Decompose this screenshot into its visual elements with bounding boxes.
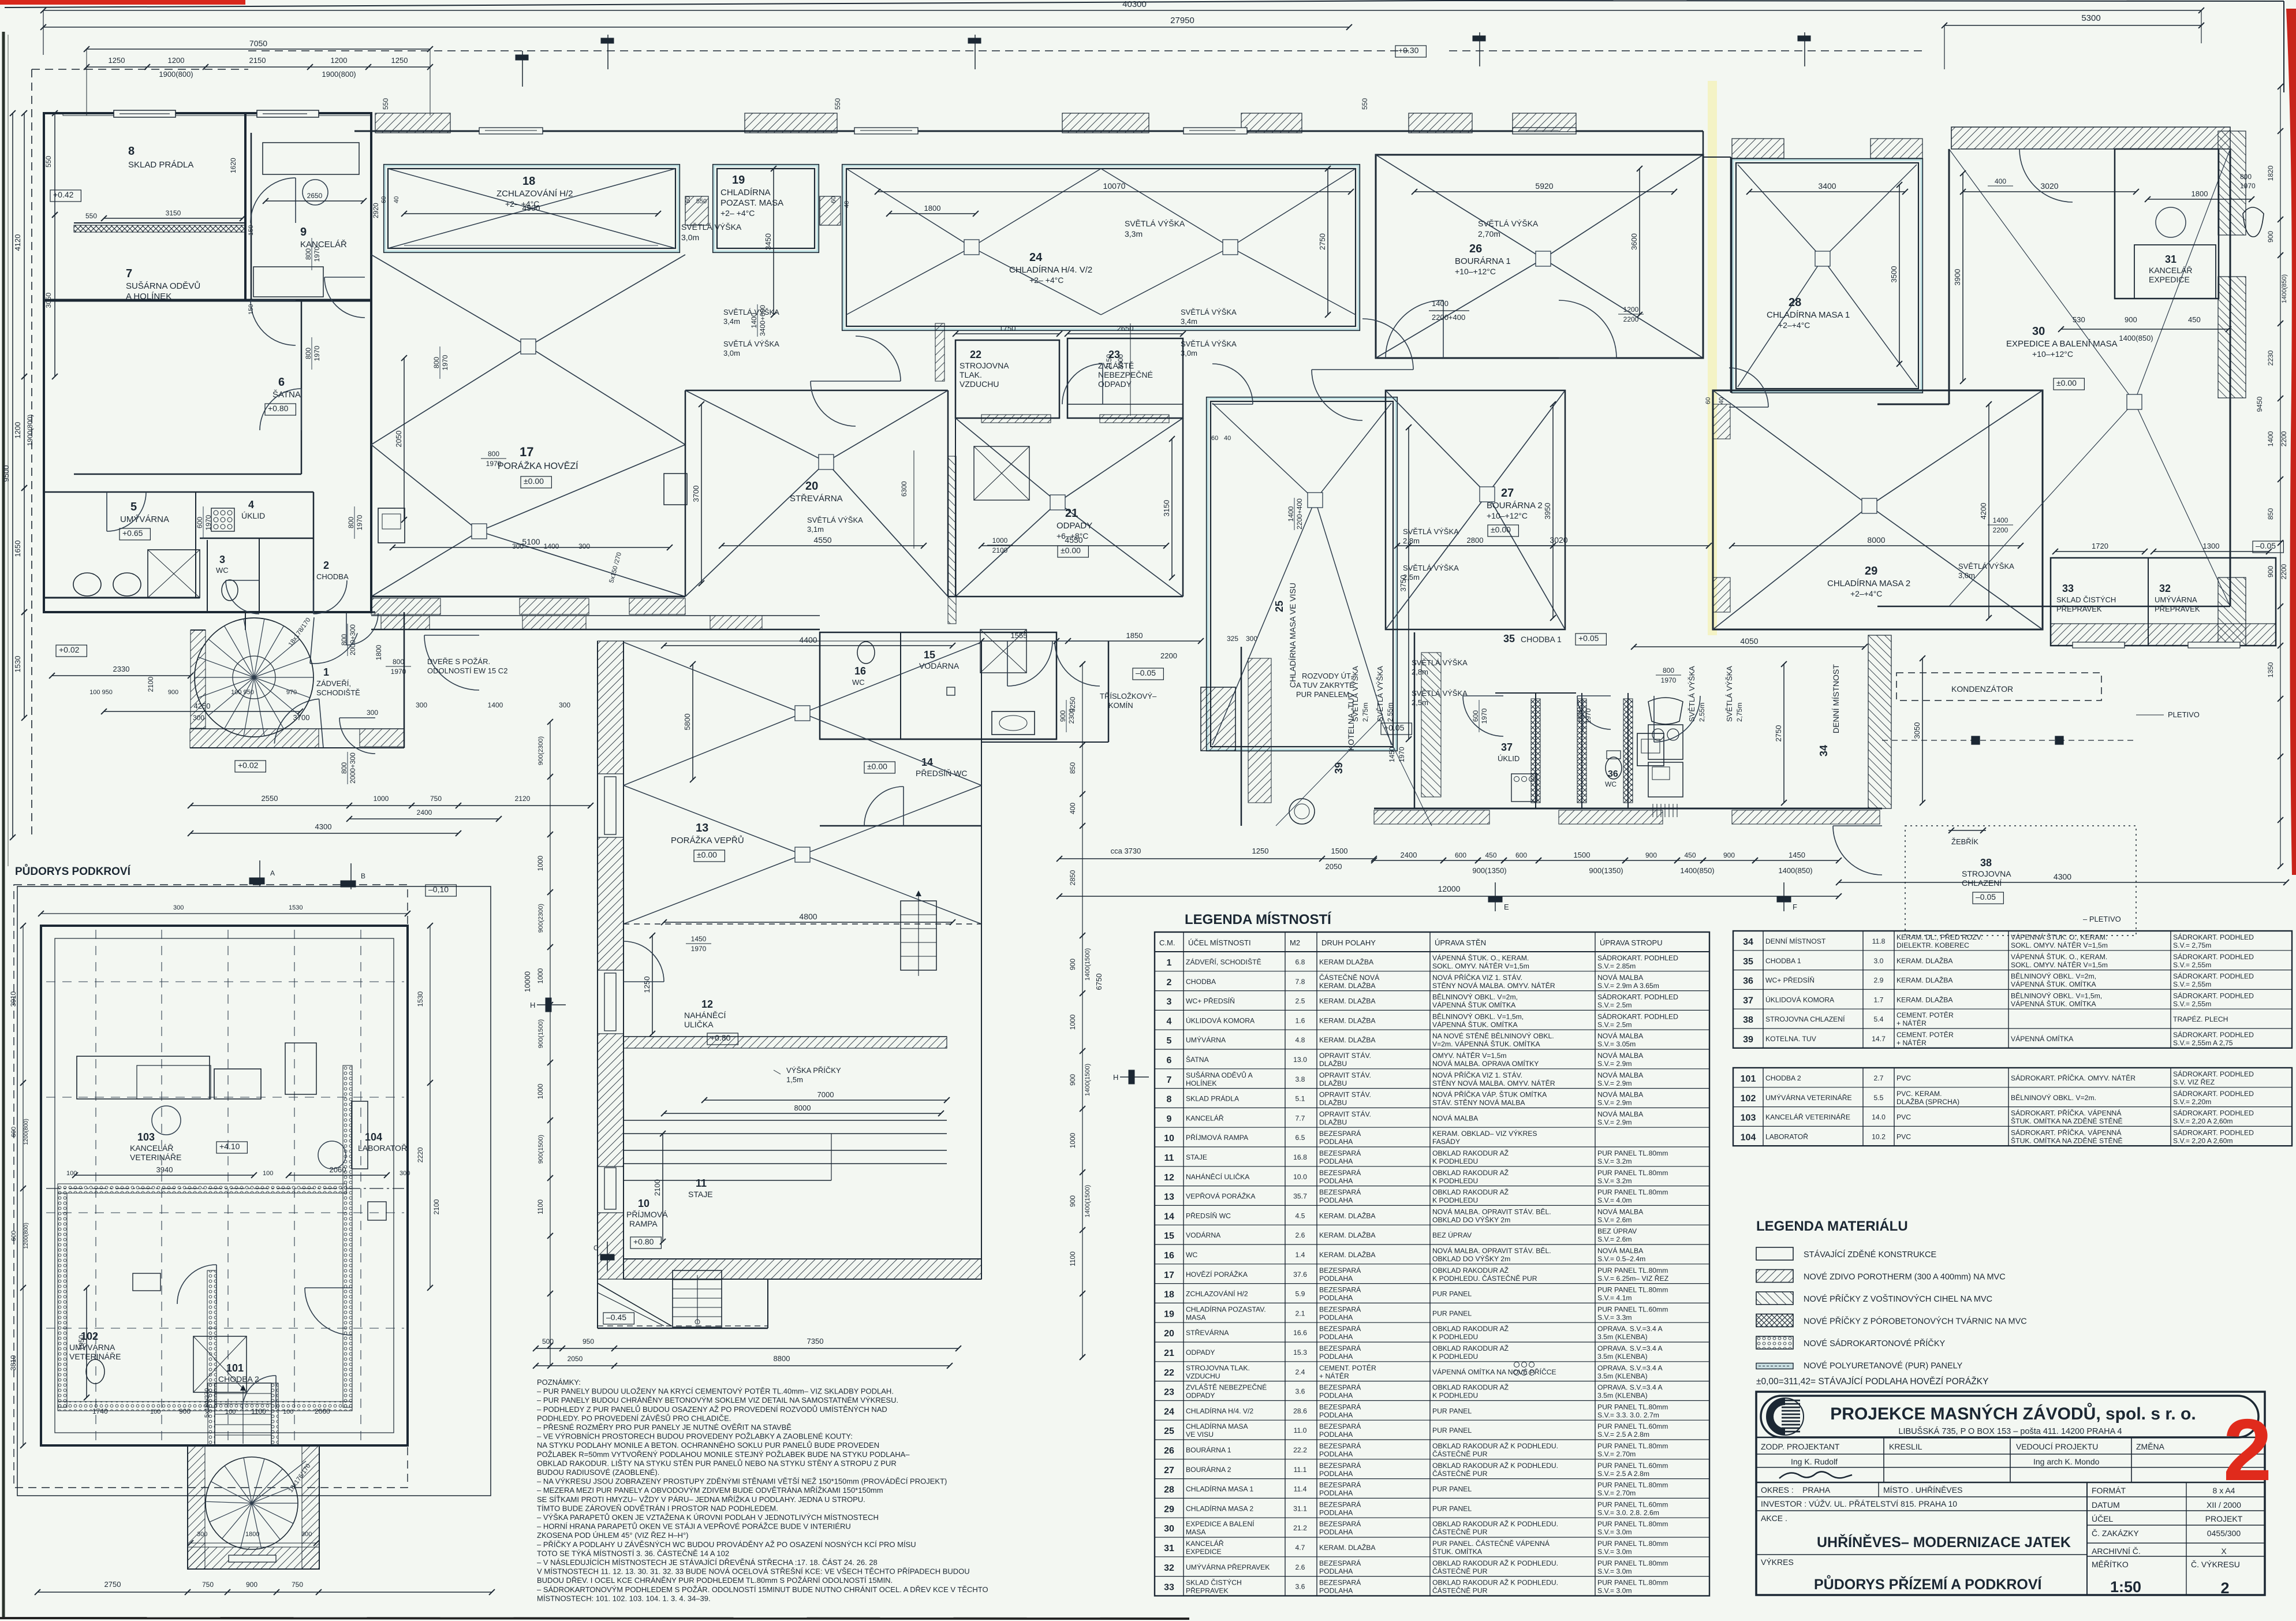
svg-text:OPRAVIT STÁV.: OPRAVIT STÁV.	[1319, 1109, 1371, 1118]
dim 1750	[955, 333, 1059, 334]
svg-text:22.2: 22.2	[1293, 1446, 1307, 1454]
svg-text:PODHLEDY. PO PROVEDENÍ ZÁVĚSŮ: PODHLEDY. PO PROVEDENÍ ZÁVĚSŮ PRO CHLADI…	[537, 1414, 731, 1422]
svg-text:STĚNY NOVÁ MALBA. OMYV. NÁTĚR: STĚNY NOVÁ MALBA. OMYV. NÁTĚR	[1432, 981, 1555, 990]
svg-text:+0.05: +0.05	[1384, 723, 1405, 732]
room 28 PUR enclosure	[1732, 159, 1922, 393]
svg-text:SÁDROKART. PŘÍČKA. VÁPENNÁ: SÁDROKART. PŘÍČKA. VÁPENNÁ	[2011, 1109, 2122, 1117]
svg-text:F: F	[1793, 903, 1797, 911]
svg-text:CHLADÍRNA H/4. V/2: CHLADÍRNA H/4. V/2	[1009, 265, 1092, 275]
svg-text:KANCELÁŘ VETERINÁŘE: KANCELÁŘ VETERINÁŘE	[1765, 1113, 1850, 1121]
svg-text:13: 13	[1164, 1193, 1174, 1202]
svg-text:3600: 3600	[1630, 233, 1638, 250]
wing dim chain	[550, 722, 551, 1366]
room 2 walls	[313, 492, 315, 612]
svg-text:26: 26	[1469, 243, 1482, 255]
svg-text:PODLAHA: PODLAHA	[1319, 1392, 1353, 1400]
svg-text:PŘEPRAVEK: PŘEPRAVEK	[2056, 605, 2102, 613]
svg-text:Č. VÝKRESU: Č. VÝKRESU	[2191, 1560, 2240, 1569]
piers 28 top	[1732, 139, 1784, 158]
svg-text:CHODBA 1: CHODBA 1	[1765, 957, 1801, 965]
svg-text:KRESLIL: KRESLIL	[1889, 1442, 1922, 1451]
svg-text:S.V.= 3.0m: S.V.= 3.0m	[1597, 1528, 1632, 1536]
svg-text:37: 37	[1743, 996, 1753, 1005]
svg-text:EXPEDICE: EXPEDICE	[2149, 275, 2190, 284]
svg-text:cca 3730: cca 3730	[1111, 847, 1141, 855]
room 9 desk	[263, 143, 359, 174]
svg-text:+2– +4°C: +2– +4°C	[720, 208, 755, 218]
svg-text:– V NÁSLEDUJÍCÍCH MÍSTNOSTECH: – V NÁSLEDUJÍCÍCH MÍSTNOSTECH JE STÁVAJÍ…	[537, 1558, 878, 1567]
svg-text:MĚŘÍTKO: MĚŘÍTKO	[2092, 1560, 2129, 1569]
room 11 stalls	[624, 1120, 947, 1121]
svg-text:1400: 1400	[1993, 516, 2008, 524]
hall left wall	[371, 131, 372, 597]
svg-text:CHLADÍRNA MASA 2: CHLADÍRNA MASA 2	[1186, 1504, 1253, 1512]
svg-text:BUDOU RADIUSOVÉ (ZAOBLENÉ).: BUDOU RADIUSOVÉ (ZAOBLENÉ).	[537, 1468, 659, 1477]
svg-text:3.5m (KLENBA): 3.5m (KLENBA)	[1597, 1333, 1648, 1341]
room 24 PUR enclosure	[842, 165, 1360, 330]
svg-text:MASA: MASA	[1186, 1528, 1206, 1536]
room 13 vault a	[624, 642, 802, 713]
svg-text:900: 900	[246, 1581, 257, 1589]
svg-text:2,75m: 2,75m	[1361, 703, 1369, 722]
svg-text:M2: M2	[1290, 938, 1300, 947]
svg-text:2300: 2300	[1067, 708, 1076, 724]
block 35 walls	[1414, 632, 1416, 808]
svg-text:CHODBA: CHODBA	[1186, 978, 1216, 986]
svg-text:NOVÁ MALBA: NOVÁ MALBA	[1597, 1031, 1644, 1040]
svg-text:S.V.= 2,75m: S.V.= 2,75m	[2173, 941, 2211, 949]
room 10 stairs	[673, 1270, 722, 1327]
svg-text:BOURÁRNA 1: BOURÁRNA 1	[1455, 256, 1511, 266]
svg-text:STROJOVNA: STROJOVNA	[1962, 869, 2011, 878]
svg-text:BOURÁRNA 2: BOURÁRNA 2	[1487, 501, 1543, 510]
svg-text:+0.80: +0.80	[633, 1237, 654, 1246]
svg-text:S.V.= 2,20 A 2,60m: S.V.= 2,20 A 2,60m	[2173, 1136, 2233, 1145]
svg-text:300: 300	[578, 542, 590, 550]
svg-text:BOURÁRNA 2: BOURÁRNA 2	[1186, 1465, 1231, 1474]
svg-text:HOLÍNEK: HOLÍNEK	[1186, 1079, 1217, 1087]
svg-text:3.6: 3.6	[1296, 1583, 1305, 1591]
chain cca3730	[1059, 858, 1374, 859]
svg-text:16.6: 16.6	[1293, 1329, 1307, 1337]
svg-text:OBKLAD RAKODUR AŽ K PODHLEDU.: OBKLAD RAKODUR AŽ K PODHLEDU.	[1432, 1578, 1558, 1587]
svg-text:40: 40	[393, 196, 400, 203]
svg-text:SVĚTLÁ VÝŠKA: SVĚTLÁ VÝŠKA	[1725, 666, 1734, 722]
svg-text:4300: 4300	[2054, 872, 2071, 881]
svg-text:BEZESPARÁ: BEZESPARÁ	[1319, 1266, 1361, 1275]
svg-text:1250: 1250	[109, 56, 125, 65]
wing 13 right walls	[1108, 641, 1110, 742]
svg-text:5.1: 5.1	[1296, 1095, 1305, 1103]
door entry top	[310, 633, 357, 664]
svg-text:11.1: 11.1	[1294, 1466, 1307, 1474]
svg-text:2.5: 2.5	[1296, 997, 1305, 1005]
svg-text:VZDUCHU: VZDUCHU	[960, 379, 999, 389]
svg-text:+2–+4°C: +2–+4°C	[1850, 589, 1882, 598]
svg-text:11.0: 11.0	[1294, 1426, 1307, 1434]
svg-text:2200+400: 2200+400	[1432, 313, 1465, 322]
svg-text:3050: 3050	[1913, 722, 1921, 739]
svg-text:35.7: 35.7	[1293, 1193, 1307, 1201]
svg-text:5: 5	[1167, 1036, 1172, 1046]
svg-text:30: 30	[2032, 325, 2045, 338]
svg-text:1450: 1450	[1789, 851, 1805, 859]
level -010 attic	[425, 885, 456, 896]
svg-text:XII / 2000: XII / 2000	[2207, 1500, 2241, 1510]
svg-text:2200: 2200	[2280, 431, 2288, 446]
svg-text:S.V.= 2,20m: S.V.= 2,20m	[2173, 1098, 2211, 1106]
section B flag	[350, 863, 352, 889]
svg-text:ŠTUK. OMÍTKA: ŠTUK. OMÍTKA	[1432, 1547, 1483, 1556]
room 29 vault	[1713, 390, 1869, 506]
svg-text:PODLAHA: PODLAHA	[1319, 1275, 1353, 1283]
svg-text:OBKLAD RAKODUR AŽ K PODHLEDU.: OBKLAD RAKODUR AŽ K PODHLEDU.	[1432, 1441, 1558, 1450]
room 31 desk	[2134, 245, 2216, 299]
svg-text:17: 17	[1164, 1270, 1174, 1280]
svg-text:ÚKLID: ÚKLID	[241, 511, 265, 520]
svg-text:POZAST. MASA: POZAST. MASA	[720, 198, 783, 208]
svg-text:VEDOUCÍ PROJEKTU: VEDOUCÍ PROJEKTU	[2016, 1442, 2098, 1451]
svg-text:PODLAHA: PODLAHA	[1319, 1489, 1353, 1497]
svg-text:800: 800	[488, 450, 499, 458]
room 30 door	[2019, 149, 2073, 202]
hall 17 south wall	[371, 596, 685, 598]
svg-text:OBKLAD RAKODUR AŽ: OBKLAD RAKODUR AŽ	[1432, 1188, 1509, 1197]
svg-text:CHLADÍRNA MASA 1: CHLADÍRNA MASA 1	[1186, 1485, 1253, 1493]
dim 4550 21	[981, 545, 1166, 546]
room 23 door	[1062, 364, 1103, 404]
svg-text:3910: 3910	[9, 991, 17, 1007]
room 18 PUR enclosure	[384, 165, 680, 252]
dim 4050 34	[1634, 646, 1865, 647]
svg-text:35: 35	[1503, 633, 1515, 644]
dim 4800 13	[664, 922, 953, 923]
svg-text:OBKLAD RAKODUR AŽ K PODHLEDU.: OBKLAD RAKODUR AŽ K PODHLEDU.	[1432, 1559, 1558, 1567]
svg-text:1970: 1970	[441, 355, 449, 370]
svg-text:S.V.= 2,55m: S.V.= 2,55m	[2173, 961, 2211, 969]
svg-text:400: 400	[1995, 177, 2006, 185]
svg-text:STROJOVNA CHLAZENÍ: STROJOVNA CHLAZENÍ	[1765, 1015, 1845, 1023]
svg-text:ŠTUK. OMÍTKA NA ZDĚNÉ STĚNĚ: ŠTUK. OMÍTKA NA ZDĚNÉ STĚNĚ	[2011, 1117, 2123, 1126]
svg-text:2200: 2200	[2280, 564, 2288, 579]
svg-text:6300: 6300	[900, 481, 908, 497]
svg-text:2,70m: 2,70m	[1478, 229, 1500, 239]
svg-text:BEZESPARÁ: BEZESPARÁ	[1319, 1461, 1361, 1470]
svg-text:OBKLAD DO VÝŠKY 2m: OBKLAD DO VÝŠKY 2m	[1432, 1215, 1510, 1224]
svg-text:PUR PANEL. ČÁSTEČNĚ VÁPENNÁ: PUR PANEL. ČÁSTEČNĚ VÁPENNÁ	[1432, 1539, 1550, 1548]
svg-text:NAHÁNĚCÍ ULIČKA: NAHÁNĚCÍ ULIČKA	[1186, 1172, 1250, 1181]
door room 8	[251, 178, 296, 223]
svg-text:450: 450	[1485, 851, 1496, 859]
svg-text:1400(850): 1400(850)	[1680, 866, 1714, 875]
svg-text:+ NÁTĚR: + NÁTĚR	[1896, 1038, 1927, 1047]
svg-text:PODLAHA: PODLAHA	[1319, 1411, 1353, 1419]
svg-text:PODLAHA: PODLAHA	[1319, 1430, 1353, 1439]
svg-text:OPRAVIT STÁV.: OPRAVIT STÁV.	[1319, 1071, 1371, 1079]
svg-text:4400: 4400	[799, 635, 817, 644]
svg-text:7000: 7000	[817, 1090, 834, 1099]
svg-text:HOVĚZÍ PORÁŽKA: HOVĚZÍ PORÁŽKA	[1186, 1270, 1248, 1279]
svg-text:PODLAHA: PODLAHA	[1319, 1528, 1353, 1536]
svg-text:11.4: 11.4	[1294, 1485, 1307, 1493]
section flag b	[601, 35, 614, 69]
svg-text:1900(800): 1900(800)	[26, 415, 34, 446]
svg-text:2100: 2100	[147, 676, 155, 692]
svg-text:18x178/170: 18x178/170	[288, 617, 312, 648]
svg-text:S.V.= 2.70m: S.V.= 2.70m	[1597, 1489, 1636, 1497]
svg-text:+0.42: +0.42	[53, 190, 74, 199]
svg-text:2650: 2650	[307, 192, 323, 200]
svg-text:PUR PANEL: PUR PANEL	[1432, 1309, 1472, 1317]
room 1 walls	[404, 612, 405, 748]
svg-text:3.8: 3.8	[1296, 1075, 1305, 1083]
svg-text:PVC: PVC	[1896, 1074, 1911, 1082]
svg-text:14.7: 14.7	[1872, 1035, 1886, 1043]
svg-text:S.V.= 3.0. 2.8. 2.6m: S.V.= 3.0. 2.8. 2.6m	[1597, 1508, 1659, 1516]
svg-text:PROJEKCE MASNÝCH ZÁVODŮ, sp: PROJEKCE MASNÝCH ZÁVODŮ, spol. s r. o.	[1830, 1403, 2196, 1424]
rooms22 hatch walls	[981, 415, 1051, 423]
svg-text:1200(800): 1200(800)	[23, 1119, 29, 1145]
svg-text:S.V.= 2.5 A 2.8m: S.V.= 2.5 A 2.8m	[1597, 1470, 1649, 1478]
svg-text:NA STYKU PODLAHY MONILE A BETO: NA STYKU PODLAHY MONILE A BETON. OCHRANN…	[537, 1441, 879, 1449]
svg-text:SÁDROKART. PODHLED: SÁDROKART. PODHLED	[2173, 1030, 2254, 1039]
svg-text:PUR PANEL TL.80mm: PUR PANEL TL.80mm	[1597, 1149, 1668, 1157]
left dim chain 9500	[12, 113, 13, 837]
svg-text:CHODBA 2: CHODBA 2	[1765, 1074, 1801, 1082]
svg-text:7: 7	[126, 267, 132, 280]
svg-text:PUR PANEL TL.60mm: PUR PANEL TL.60mm	[1597, 1422, 1668, 1430]
svg-text:BEZESPARÁ: BEZESPARÁ	[1319, 1519, 1361, 1528]
room 5 walls	[44, 491, 313, 493]
svg-text:800: 800	[432, 357, 440, 368]
room 30 walls	[1948, 149, 1950, 404]
svg-text:SVĚTLÁ VÝŠKA: SVĚTLÁ VÝŠKA	[1958, 562, 2014, 571]
svg-text:1.6: 1.6	[1296, 1016, 1305, 1024]
yellow scan band	[1708, 81, 1717, 635]
attic inner wall line	[55, 938, 394, 1433]
svg-text:LABORATOŘ: LABORATOŘ	[1765, 1132, 1808, 1141]
room 15 sq	[947, 687, 955, 695]
svg-text:PLETIVO: PLETIVO	[2168, 710, 2200, 719]
room 17 vault upper	[371, 255, 528, 346]
svg-text:+4.10: +4.10	[219, 1142, 240, 1151]
svg-text:K PODHLEDU: K PODHLEDU	[1432, 1197, 1478, 1205]
svg-text:TRAPÉZ. PLECH: TRAPÉZ. PLECH	[2173, 1015, 2228, 1023]
svg-text:37.6: 37.6	[1293, 1270, 1307, 1279]
room 28 vault	[1738, 165, 1823, 259]
dim 5100 17	[393, 547, 670, 548]
room 14 label	[864, 762, 895, 773]
svg-text:OBKLAD RAKODUR. LIŠTY NA STYKU: OBKLAD RAKODUR. LIŠTY NA STYKU STĚN PUR …	[537, 1459, 897, 1467]
svg-text:4: 4	[1167, 1016, 1172, 1026]
svg-text:600: 600	[1455, 851, 1466, 859]
svg-text:2,75m: 2,75m	[1735, 703, 1744, 722]
dim 3020 25	[1409, 545, 1709, 546]
svg-text:S.V.= 2.70m: S.V.= 2.70m	[1597, 1450, 1636, 1458]
svg-text:21: 21	[1065, 507, 1078, 520]
roof dashed outline	[32, 69, 248, 70]
svg-text:POZNÁMKY:: POZNÁMKY:	[537, 1378, 581, 1387]
svg-text:– PUR PANELY BUDOU ULOŽENY NA: – PUR PANELY BUDOU ULOŽENY NA KRYCÍ CEME…	[537, 1387, 894, 1396]
svg-text:1900(800): 1900(800)	[159, 70, 193, 79]
svg-text:19: 19	[732, 174, 745, 187]
svg-text:ZCHLAZOVÁNÍ H/2: ZCHLAZOVÁNÍ H/2	[1186, 1290, 1248, 1298]
svg-text:400: 400	[1069, 803, 1077, 814]
svg-text:PUR PANELEM: PUR PANELEM	[1296, 690, 1349, 699]
svg-text:SÁDROKART. PODHLED: SÁDROKART. PODHLED	[2173, 1128, 2254, 1136]
svg-text:ŠTUK. OMÍTKA NA ZDĚNÉ STĚNĚ: ŠTUK. OMÍTKA NA ZDĚNÉ STĚNĚ	[2011, 1136, 2123, 1145]
svg-text:PODLAHA: PODLAHA	[1319, 1157, 1353, 1165]
svg-text:10: 10	[638, 1198, 649, 1209]
room 25 PUR enclosure	[1207, 397, 1397, 751]
wall step 26-28	[1703, 131, 1704, 358]
svg-text:900(1350): 900(1350)	[1589, 866, 1623, 875]
svg-text:18: 18	[522, 175, 535, 188]
svg-text:SOKL. OMYV. NÁTĚR V=1,5m: SOKL. OMYV. NÁTĚR V=1,5m	[2011, 960, 2108, 969]
svg-text:900(1500): 900(1500)	[537, 1019, 544, 1048]
svg-text:CHODBA 1: CHODBA 1	[1521, 635, 1562, 644]
svg-text:BEZESPARÁ: BEZESPARÁ	[1319, 1305, 1361, 1313]
dim 4400 13	[664, 645, 953, 646]
room 17 sink	[378, 508, 405, 543]
room 39 walls	[1241, 647, 1242, 826]
svg-text:2750: 2750	[1318, 233, 1327, 250]
svg-text:8000: 8000	[1867, 535, 1885, 545]
svg-text:V=2m. VÁPENNÁ ŠTUK. OMÍTKA: V=2m. VÁPENNÁ ŠTUK. OMÍTKA	[1432, 1039, 1540, 1048]
room 13 walls	[624, 640, 1108, 642]
section F flag	[1783, 882, 1784, 911]
svg-text:800: 800	[393, 658, 404, 666]
room 21 shower sq	[974, 446, 1029, 500]
door room 1	[346, 613, 378, 645]
svg-text:CEMENT. POTĚR: CEMENT. POTĚR	[1896, 1030, 1954, 1039]
svg-text:6750: 6750	[1095, 974, 1103, 990]
svg-text:8: 8	[1167, 1095, 1172, 1105]
svg-text:40: 40	[1224, 435, 1231, 442]
svg-text:9450: 9450	[2256, 396, 2264, 412]
svg-text:2: 2	[2220, 1579, 2229, 1597]
svg-text:PROJEKT: PROJEKT	[2205, 1514, 2243, 1523]
svg-text:27950: 27950	[1170, 16, 1194, 25]
svg-text:PODLAHA: PODLAHA	[1319, 1508, 1353, 1516]
chain 4300r	[1839, 882, 2286, 883]
svg-text:2200: 2200	[1623, 315, 1639, 323]
svg-text:CHLADÍRNA H/4. V/2: CHLADÍRNA H/4. V/2	[1186, 1406, 1253, 1415]
svg-text:ODPADY: ODPADY	[1056, 521, 1092, 531]
svg-text:NOVÁ MALBA. OPRAVIT STÁV. BĚL.: NOVÁ MALBA. OPRAVIT STÁV. BĚL.	[1432, 1246, 1551, 1255]
svg-text:NOVÁ PŘÍČKA VÁP. ŠTUK OMÍTKA: NOVÁ PŘÍČKA VÁP. ŠTUK OMÍTKA	[1432, 1090, 1547, 1099]
svg-text:1650: 1650	[13, 541, 22, 557]
svg-text:VÁPENNÁ ŠTUK. O., KERAM.: VÁPENNÁ ŠTUK. O., KERAM.	[2011, 952, 2107, 961]
svg-text:LEGENDA MÍSTNOSTÍ: LEGENDA MÍSTNOSTÍ	[1185, 911, 1332, 927]
svg-text:3050: 3050	[44, 292, 53, 308]
svg-text:SÁDROKART. PODHLED: SÁDROKART. PODHLED	[2173, 952, 2254, 961]
room 9 desk2	[253, 267, 323, 297]
svg-text:900(2300): 900(2300)	[537, 904, 544, 933]
svg-text:S.V.= 0.5–2.4m: S.V.= 0.5–2.4m	[1597, 1255, 1645, 1263]
svg-text:PVC: PVC	[1896, 1132, 1911, 1141]
wall rooms 8/7 + hatch	[74, 222, 245, 223]
svg-text:5x150 /270: 5x150 /270	[608, 551, 623, 584]
svg-text:2330: 2330	[113, 665, 130, 673]
svg-text:3150: 3150	[1162, 500, 1171, 517]
attic dashed boundary	[14, 885, 408, 1488]
svg-text:DLAŽBU: DLAŽBU	[1319, 1098, 1347, 1107]
svg-text:300: 300	[416, 701, 427, 709]
room 27 sink	[1637, 733, 1664, 766]
dim 2800 27	[1397, 545, 1553, 546]
svg-text:1850: 1850	[1126, 631, 1143, 640]
svg-text:550: 550	[382, 98, 390, 110]
svg-text:3,3m: 3,3m	[1125, 229, 1143, 239]
svg-text:3000: 3000	[1117, 354, 1125, 370]
room 31 box	[2115, 149, 2219, 299]
svg-text:800: 800	[1663, 666, 1674, 675]
svg-text:PŮDORYS PŘÍZEMÍ A PODKROVÍ: PŮDORYS PŘÍZEMÍ A PODKROVÍ	[1814, 1574, 2043, 1593]
room 10 walls	[597, 1279, 598, 1328]
room 17 vault lower	[371, 445, 479, 531]
dim 2330 5	[52, 675, 191, 676]
svg-text:900: 900	[168, 689, 178, 696]
svg-text:SVĚTLÁ VÝŠKA: SVĚTLÁ VÝŠKA	[1376, 666, 1384, 722]
door corridor 35a	[1463, 696, 1503, 736]
svg-text:4.8: 4.8	[1296, 1036, 1305, 1044]
svg-text:1000: 1000	[1069, 1014, 1077, 1030]
hatch pier 29 left	[1713, 404, 1730, 439]
room 30 top hatch wall	[1951, 127, 2230, 149]
dim 2050 17	[404, 358, 405, 520]
svg-text:900: 900	[1059, 710, 1067, 722]
svg-text:550: 550	[44, 156, 53, 167]
door room 7	[251, 300, 296, 345]
room 34 right wall	[1868, 635, 1891, 808]
svg-text:1500: 1500	[1574, 851, 1591, 859]
svg-text:12: 12	[1164, 1173, 1174, 1183]
room 36 sink	[1648, 698, 1683, 724]
svg-text:ZÁDVEŘÍ,: ZÁDVEŘÍ,	[316, 679, 351, 688]
svg-text:5920: 5920	[1535, 181, 1553, 191]
svg-text:8000: 8000	[794, 1104, 811, 1112]
svg-text:S.V. VIZ ŘEZ: S.V. VIZ ŘEZ	[2173, 1078, 2215, 1086]
right dim chain	[2280, 87, 2281, 866]
svg-text:26: 26	[1164, 1446, 1174, 1456]
red scan strip right edge	[2286, 9, 2296, 875]
svg-text:6: 6	[1167, 1056, 1172, 1065]
svg-text:ROZVODY ÚT–: ROZVODY ÚT–	[1302, 672, 1356, 680]
svg-text:1750: 1750	[999, 324, 1016, 333]
svg-text:VODÁRNA: VODÁRNA	[1186, 1231, 1221, 1239]
svg-text:1300: 1300	[2203, 542, 2220, 550]
svg-text:2150: 2150	[1105, 354, 1113, 370]
svg-text:6.5: 6.5	[1296, 1134, 1305, 1142]
svg-text:2200: 2200	[1160, 651, 1177, 660]
dim 10070	[878, 191, 1351, 192]
attic col dashed h	[46, 981, 404, 982]
svg-text:3.5m (KLENBA): 3.5m (KLENBA)	[1597, 1372, 1648, 1380]
svg-text:VÁPENNÁ ŠTUK OMÍTKA: VÁPENNÁ ŠTUK OMÍTKA	[1432, 1001, 1516, 1009]
svg-text:800: 800	[340, 634, 348, 646]
svg-text:WC+ PŘEDSÍŇ: WC+ PŘEDSÍŇ	[1186, 997, 1235, 1005]
svg-text:VÁPENNÁ ŠTUK. OMÍTKA: VÁPENNÁ ŠTUK. OMÍTKA	[2011, 999, 2097, 1008]
svg-text:VZDUCHU: VZDUCHU	[1186, 1372, 1220, 1380]
svg-text:CHLADÍRNA MASA VE VISU: CHLADÍRNA MASA VE VISU	[1288, 583, 1297, 688]
svg-text:– VE VÝROBNÍCH PROSTORECH BUD: – VE VÝROBNÍCH PROSTORECH BUDOU PROVEDEN…	[537, 1432, 853, 1441]
dim 3150 21	[1171, 439, 1173, 577]
svg-text:1800: 1800	[375, 644, 383, 660]
svg-text:PŘÍJMOVÁ RAMPA: PŘÍJMOVÁ RAMPA	[1186, 1133, 1249, 1142]
svg-text:4300: 4300	[315, 822, 332, 831]
svg-text:PUR PANEL TL.80mm: PUR PANEL TL.80mm	[1597, 1442, 1668, 1450]
